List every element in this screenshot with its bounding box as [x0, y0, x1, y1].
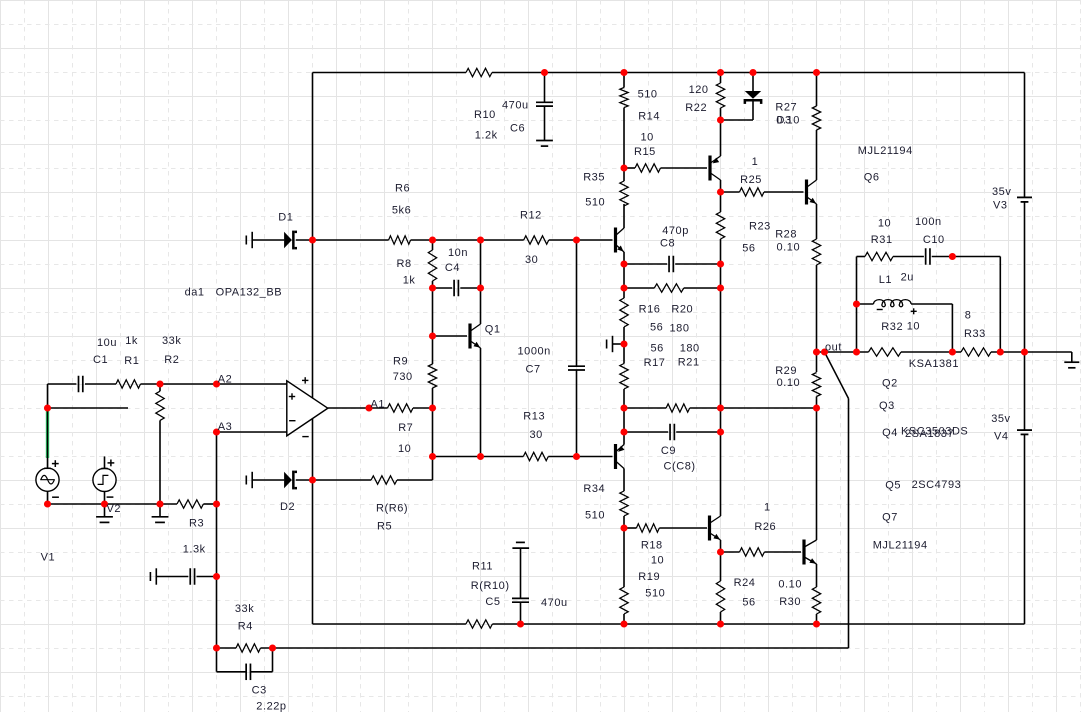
svg-text:C3: C3: [252, 685, 267, 697]
svg-text:C7: C7: [526, 364, 541, 376]
svg-text:R28: R28: [775, 228, 797, 240]
svg-text:180: 180: [670, 323, 690, 335]
svg-text:R34: R34: [583, 483, 605, 495]
svg-text:da1: da1: [185, 287, 205, 299]
svg-text:R5: R5: [377, 520, 392, 532]
svg-text:100n: 100n: [915, 216, 942, 228]
svg-text:V4: V4: [994, 430, 1009, 442]
svg-text:0.10: 0.10: [777, 241, 801, 253]
svg-text:10: 10: [907, 321, 920, 333]
svg-text:R21: R21: [678, 356, 700, 368]
svg-text:56: 56: [651, 342, 664, 354]
svg-text:R13: R13: [523, 410, 545, 422]
svg-text:Q5: Q5: [885, 480, 901, 492]
svg-text:1.3k: 1.3k: [183, 544, 206, 556]
svg-text:C9: C9: [661, 445, 676, 457]
svg-text:R29: R29: [775, 365, 797, 377]
svg-text:470u: 470u: [502, 100, 529, 112]
svg-text:470u: 470u: [541, 597, 568, 609]
svg-text:R31: R31: [871, 234, 893, 246]
svg-text:R11: R11: [472, 561, 493, 573]
svg-text:33k: 33k: [235, 603, 254, 615]
svg-text:L1: L1: [879, 274, 892, 286]
svg-text:Q7: Q7: [882, 512, 898, 524]
svg-text:R25: R25: [740, 174, 762, 186]
svg-text:R8: R8: [397, 258, 412, 270]
svg-text:2SC4793: 2SC4793: [912, 479, 962, 491]
svg-text:R2: R2: [164, 354, 179, 366]
svg-text:R27: R27: [775, 101, 797, 113]
svg-text:R26: R26: [754, 521, 776, 533]
svg-text:D3: D3: [777, 115, 792, 127]
svg-text:56: 56: [742, 243, 755, 255]
svg-text:5k6: 5k6: [392, 205, 411, 217]
svg-text:510: 510: [645, 587, 665, 599]
svg-text:510: 510: [585, 197, 605, 209]
svg-text:R4: R4: [238, 620, 253, 632]
svg-text:Q4: Q4: [882, 427, 898, 439]
svg-text:R3: R3: [189, 518, 204, 530]
svg-text:C(C8): C(C8): [664, 460, 696, 472]
svg-text:10: 10: [651, 555, 664, 567]
svg-text:30: 30: [525, 254, 538, 266]
svg-text:D1: D1: [278, 212, 293, 224]
svg-text:1000n: 1000n: [518, 346, 551, 358]
svg-text:R30: R30: [779, 596, 801, 608]
svg-text:R35: R35: [583, 171, 605, 183]
svg-text:2u: 2u: [901, 272, 914, 284]
svg-text:R6: R6: [395, 182, 410, 194]
svg-text:120: 120: [689, 84, 709, 96]
svg-text:out: out: [825, 341, 842, 353]
svg-text:V2: V2: [107, 503, 122, 515]
svg-text:V3: V3: [993, 200, 1008, 212]
svg-text:10: 10: [398, 443, 411, 455]
svg-text:1: 1: [764, 502, 771, 514]
svg-text:1: 1: [752, 156, 759, 168]
svg-text:510: 510: [638, 88, 658, 100]
svg-text:C10: C10: [923, 234, 945, 246]
svg-text:R1: R1: [124, 355, 139, 367]
svg-text:10: 10: [878, 217, 891, 229]
svg-text:C5: C5: [485, 596, 500, 608]
svg-text:180: 180: [680, 343, 700, 355]
svg-text:C1: C1: [93, 354, 108, 366]
svg-text:KSA1381: KSA1381: [909, 358, 959, 370]
svg-text:Q6: Q6: [864, 171, 880, 183]
svg-text:Q2: Q2: [882, 378, 898, 390]
svg-text:R24: R24: [734, 577, 756, 589]
svg-text:D2: D2: [280, 501, 295, 513]
svg-text:33k: 33k: [162, 335, 181, 347]
svg-text:R32: R32: [881, 321, 903, 333]
svg-text:R15: R15: [634, 146, 656, 158]
svg-text:MJL21194: MJL21194: [873, 540, 928, 552]
svg-text:R22: R22: [685, 102, 707, 114]
svg-text:R23: R23: [749, 221, 771, 233]
svg-text:2.22p: 2.22p: [256, 701, 286, 712]
svg-text:8: 8: [965, 310, 972, 322]
svg-text:R(R6): R(R6): [376, 502, 408, 514]
svg-text:1k: 1k: [403, 275, 416, 287]
svg-text:1.2k: 1.2k: [475, 130, 498, 142]
svg-text:Q3: Q3: [879, 400, 895, 412]
svg-text:56: 56: [742, 596, 755, 608]
svg-text:A1: A1: [371, 399, 386, 411]
svg-text:Q1: Q1: [485, 323, 501, 335]
svg-text:V1: V1: [41, 552, 56, 564]
svg-text:R20: R20: [671, 303, 693, 315]
svg-text:510: 510: [585, 509, 605, 521]
svg-text:C6: C6: [510, 122, 525, 134]
svg-text:R10: R10: [474, 109, 496, 121]
svg-text:C4: C4: [445, 262, 460, 274]
svg-text:35v: 35v: [991, 413, 1010, 425]
svg-text:A3: A3: [218, 421, 233, 433]
svg-text:0.10: 0.10: [778, 578, 802, 590]
svg-text:56: 56: [650, 322, 663, 334]
svg-text:R9: R9: [393, 355, 408, 367]
svg-text:R17: R17: [644, 357, 666, 369]
svg-text:R19: R19: [638, 571, 660, 583]
svg-text:730: 730: [393, 371, 413, 383]
svg-text:10: 10: [641, 131, 654, 143]
svg-text:R18: R18: [641, 540, 663, 552]
svg-text:2SA1837: 2SA1837: [905, 428, 954, 440]
svg-text:R12: R12: [520, 209, 542, 221]
svg-text:10u: 10u: [97, 337, 117, 349]
svg-text:35v: 35v: [992, 186, 1011, 198]
svg-text:R33: R33: [964, 328, 986, 340]
svg-text:R7: R7: [398, 422, 413, 434]
svg-text:A2: A2: [218, 374, 233, 386]
svg-text:R(R10): R(R10): [471, 580, 510, 592]
svg-text:MJL21194: MJL21194: [858, 145, 913, 157]
svg-text:R14: R14: [638, 110, 660, 122]
svg-text:C8: C8: [660, 238, 675, 250]
svg-text:OPA132_BB: OPA132_BB: [216, 287, 283, 299]
svg-text:1k: 1k: [125, 335, 138, 347]
svg-text:R16: R16: [639, 303, 661, 315]
svg-text:0.10: 0.10: [777, 377, 801, 389]
svg-text:470p: 470p: [662, 225, 689, 237]
svg-text:10n: 10n: [448, 247, 468, 259]
svg-text:30: 30: [530, 429, 543, 441]
